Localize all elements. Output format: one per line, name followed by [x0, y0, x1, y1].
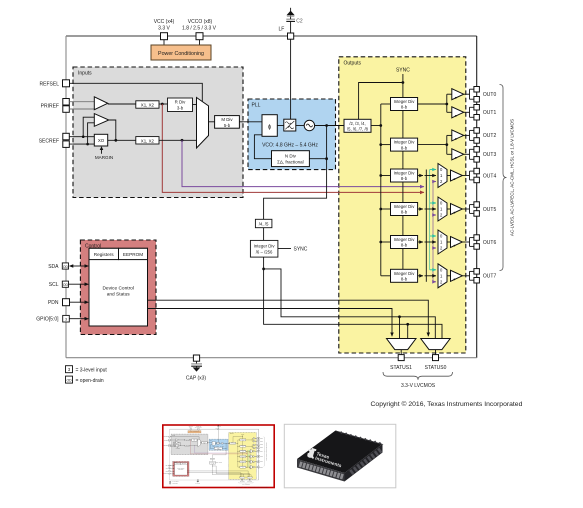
svg-text:STATUS0: STATUS0	[425, 365, 447, 371]
wire divider to OUT7 mux	[418, 275, 436, 277]
wire rail to divider 5	[381, 241, 391, 243]
svg-text:SYNC: SYNC	[294, 247, 308, 253]
buffer PRIREF input	[94, 97, 107, 110]
device control and status block	[89, 248, 148, 326]
svg-text:GPIO[5:0]: GPIO[5:0]	[36, 317, 59, 323]
wire divider to OUT2/OUT3 buffers	[418, 135, 452, 154]
chip boundary	[66, 36, 477, 358]
pin SECREF	[39, 133, 70, 147]
pin OUT7	[474, 269, 497, 283]
pin OUT1	[474, 105, 497, 121]
frequency doubler X1,X2 (primary)	[136, 101, 159, 108]
wire secondary reference to output muxes (purple)	[182, 140, 424, 186]
svg-text:PLL: PLL	[252, 103, 261, 109]
svg-text:Inputs: Inputs	[78, 71, 92, 77]
outputs block	[339, 57, 466, 353]
loop filter	[284, 119, 296, 131]
wire M divider to PFD	[239, 121, 262, 123]
pin REFSEL	[40, 80, 70, 88]
svg-text:Integer Div: Integer Div	[394, 140, 416, 145]
pin STATUS0	[425, 355, 447, 371]
mux input select	[197, 98, 209, 149]
wire OUT5 buffer to pins	[462, 205, 474, 214]
wire OUT3 buffer to pins	[464, 149, 474, 159]
buffer OUT0	[452, 89, 464, 100]
wire rail to divider 3	[381, 175, 391, 177]
svg-text:OUT0: OUT0	[483, 92, 497, 98]
divider distribution rail	[380, 104, 382, 276]
svg-text:/6 – /256: /6 – /256	[256, 250, 273, 255]
svg-text:N Div: N Div	[285, 153, 297, 158]
node status1 feed a	[398, 315, 401, 318]
wire post divider to rail	[371, 125, 381, 127]
wire OUT0 buffer to pins	[464, 89, 474, 99]
frequency doubler X1,X2 (secondary)	[136, 137, 159, 144]
wire buffer to doubler	[108, 103, 136, 105]
wire PRIREF pair to input buffer	[69, 102, 94, 109]
svg-text:OD: OD	[63, 283, 69, 287]
svg-text:PRIREF: PRIREF	[41, 103, 59, 109]
pin OUT3	[474, 147, 497, 163]
node rail junction	[379, 124, 382, 127]
wire /4,/5 to integer divider	[263, 228, 265, 241]
svg-text:OUT3: OUT3	[483, 152, 497, 158]
capacitor CAP	[191, 361, 202, 366]
wire rail to divider 6	[381, 275, 391, 277]
svg-text:STATUS1: STATUS1	[390, 365, 412, 371]
svg-text:/5, /6, /7, /8: /5, /6, /7, /8	[347, 126, 369, 131]
wire GPIO to control	[69, 317, 89, 321]
pin OUT4	[474, 168, 497, 182]
svg-text:Integer Div: Integer Div	[394, 237, 416, 242]
svg-text:SCL: SCL	[49, 282, 59, 288]
svg-text:VCCO (x8): VCCO (x8)	[188, 19, 213, 25]
svg-text:EEPROM: EEPROM	[123, 252, 143, 257]
node feedback junction	[325, 157, 328, 160]
phase detector	[262, 115, 277, 137]
wire doubler to R divider	[159, 103, 168, 105]
svg-text:/4, /5: /4, /5	[259, 222, 269, 227]
PLL block	[248, 99, 336, 170]
svg-text:5-b: 5-b	[224, 123, 231, 128]
thumbnail: mini block diagram	[163, 425, 274, 489]
chip pins far edge	[340, 431, 381, 445]
node rail junction 3	[379, 174, 382, 177]
pin OUT6	[474, 235, 497, 249]
divider N Div fractional	[272, 151, 310, 167]
svg-text:SDA: SDA	[48, 264, 59, 270]
svg-text:8-b: 8-b	[401, 243, 408, 248]
capacitor C2	[286, 15, 303, 33]
wire to SYNC label	[278, 248, 291, 250]
pin SDA	[48, 263, 68, 270]
wire STATUS0 mux to pin	[435, 350, 437, 355]
wire SYNC branch to post divider	[359, 83, 403, 120]
wire SCL to control	[69, 282, 90, 286]
wire SECREF pair to XO	[69, 137, 94, 144]
node status1 feed b	[406, 323, 409, 326]
buffer crystal input	[94, 114, 109, 127]
wire VCO to N divider	[309, 158, 326, 160]
mux OUT6 select	[438, 230, 447, 254]
buffer OUT6	[451, 237, 463, 248]
svg-text:PDN: PDN	[48, 300, 59, 306]
wire sync divider to status muxes	[264, 257, 442, 338]
wire mux to OUT7 buffer	[447, 275, 451, 277]
wire mux bus (purple)	[432, 182, 434, 282]
svg-text:REFSEL: REFSEL	[40, 81, 60, 87]
wire mux to OUT6 buffer	[447, 241, 451, 243]
wire teal into OUT7 mux	[430, 269, 436, 271]
wire divider to OUT4 mux	[418, 175, 436, 177]
wire crystal buffer to XO output net	[109, 120, 116, 140]
svg-text:OD: OD	[63, 265, 69, 269]
chip pins left edge	[299, 462, 344, 480]
EEPROM block	[119, 248, 148, 259]
buffer OUT5	[451, 204, 463, 215]
svg-text:Integer Div: Integer Div	[394, 99, 416, 104]
wire LF to loop filter	[290, 39, 292, 119]
mux STATUS1	[387, 339, 417, 350]
wire rail to divider 2	[381, 144, 391, 146]
svg-text:OUT5: OUT5	[483, 207, 497, 213]
wire purple into OUT7 mux	[433, 281, 436, 283]
node OUT2/OUT3 branch	[445, 143, 448, 146]
svg-text:OUT6: OUT6	[483, 240, 497, 246]
svg-text:/2, /3, /4,: /2, /3, /4,	[349, 121, 365, 126]
wire control to STATUS0 mux	[148, 300, 429, 336]
divider Integer Div /6-/256	[250, 240, 278, 257]
pin VCC	[154, 19, 175, 45]
svg-text:X1, X2: X1, X2	[141, 138, 155, 143]
svg-text:VCO: 4.8 GHz – 5.4 GHz: VCO: 4.8 GHz – 5.4 GHz	[262, 143, 318, 149]
wire input mux to M divider	[209, 121, 215, 123]
node OUT0/OUT1 branch	[445, 103, 448, 106]
wire purple into OUT5 mux	[433, 214, 436, 216]
inputs block	[73, 67, 243, 198]
svg-text:3-b: 3-b	[177, 105, 184, 110]
buffer OUT1	[452, 107, 464, 118]
mux OUT5 select	[438, 197, 447, 221]
pin OUT0	[474, 87, 497, 103]
pin OUT5	[474, 202, 497, 216]
svg-text:Registers: Registers	[94, 252, 114, 257]
svg-text:SYNC: SYNC	[396, 68, 410, 74]
pin GPIO[5:0]	[36, 315, 69, 322]
divider /4,/5	[255, 219, 272, 227]
divider Integer Div 2	[391, 138, 418, 151]
legend open-drain	[66, 376, 104, 384]
svg-text:C2: C2	[296, 18, 303, 24]
wire teal into OUT6 mux	[430, 235, 436, 237]
wire STATUS1 mux to pin	[400, 350, 402, 355]
svg-text:1.8 / 2.5 / 3.3 V: 1.8 / 2.5 / 3.3 V	[182, 26, 217, 32]
thumbnail: chip package photo	[284, 424, 396, 488]
node SYNC branch	[402, 81, 405, 84]
svg-text:AC-LVDS, AC-LVPECL, AC-CML, HC: AC-LVDS, AC-LVPECL, AC-CML, HCSL or 1.8-…	[510, 119, 515, 236]
svg-text:Integer Div: Integer Div	[394, 171, 416, 176]
svg-text:SECREF: SECREF	[39, 138, 59, 144]
buffer OUT3	[452, 149, 464, 160]
wire SECREF taps to crystal buffer	[83, 117, 94, 144]
oscillator VCO	[304, 120, 314, 130]
svg-text:XO: XO	[98, 138, 105, 143]
pin OUT2	[474, 128, 497, 144]
divider R Div 3-b	[168, 98, 193, 112]
svg-text:X1, X2: X1, X2	[141, 103, 155, 108]
wire purple into OUT6 mux	[433, 247, 436, 249]
wire SDA (bidirectional)	[69, 264, 89, 268]
ground (CAP)	[186, 366, 207, 381]
pin SCL	[49, 281, 69, 288]
wire rail to divider 1	[381, 103, 391, 105]
wire divider to OUT0/OUT1 buffers	[418, 94, 452, 112]
registers block	[89, 248, 119, 259]
legend 3-level input	[66, 366, 108, 374]
svg-text:8-b: 8-b	[401, 145, 408, 150]
wire N divider feedback to PFD	[254, 135, 271, 159]
node VCO output	[325, 124, 328, 127]
wire OUT4 buffer to pins	[462, 171, 474, 180]
wire secondary doubler to input mux	[159, 139, 197, 141]
svg-text:8-b: 8-b	[401, 277, 408, 282]
wire OUT2 buffer to pins	[464, 130, 474, 140]
buffer OUT2	[452, 130, 464, 141]
node rail junction 5	[379, 241, 382, 244]
svg-text:Outputs: Outputs	[344, 61, 362, 67]
wire purple into OUT4 mux	[433, 181, 436, 183]
node SECREF P tap	[82, 135, 85, 138]
svg-text:3.3-V LVCMOS: 3.3-V LVCMOS	[401, 383, 436, 389]
mux STATUS0	[421, 339, 451, 350]
wire divider to OUT6 mux	[418, 241, 436, 243]
node primary clock tap	[161, 103, 164, 106]
buffer OUT4	[451, 170, 463, 181]
divider Integer Div 5	[391, 236, 418, 249]
node XO output junction	[114, 139, 117, 142]
pin PRIREF	[41, 99, 70, 113]
wire SYNC chain through dividers	[402, 74, 404, 282]
wire VCO continued into outputs	[336, 125, 345, 127]
pin STATUS1	[390, 355, 412, 371]
buffer OUT7	[451, 270, 463, 281]
svg-text:= 3-level input: = 3-level input	[76, 368, 108, 374]
wire into STATUS1 mux a	[399, 317, 401, 339]
divider Integer Div 3	[391, 169, 418, 182]
chip TI logo	[306, 447, 344, 468]
wire OUT6 buffer to pins	[462, 238, 474, 247]
svg-text:OD: OD	[66, 378, 72, 382]
mux OUT4 select	[438, 164, 447, 188]
wire XO to doubler	[108, 139, 136, 141]
svg-text:ΣΔ, fractional: ΣΔ, fractional	[277, 160, 304, 165]
svg-text:Integer Div: Integer Div	[394, 204, 416, 209]
brace status pins	[383, 372, 453, 380]
divider M Div 5-b	[215, 116, 240, 129]
wire primary reference to output muxes (red)	[162, 104, 424, 192]
svg-text:M Div: M Div	[221, 117, 233, 122]
wire mux bus (black)	[425, 170, 427, 282]
svg-text:VCC (x4): VCC (x4)	[154, 19, 175, 25]
pin PDN	[48, 299, 70, 307]
chip pins right edge	[349, 448, 382, 475]
svg-text:Copyright © 2016, Texas Instru: Copyright © 2016, Texas Instruments Inco…	[371, 400, 523, 408]
svg-text:R Div: R Div	[175, 100, 187, 105]
MARGIN control	[95, 146, 113, 160]
power conditioning block	[151, 45, 211, 60]
wire control to STATUS1 mux	[148, 309, 393, 337]
svg-text:Integer Div: Integer Div	[394, 271, 416, 276]
svg-text:8-b: 8-b	[401, 105, 408, 110]
svg-text:3.3 V: 3.3 V	[158, 26, 170, 32]
divider Integer Div 1	[391, 98, 418, 111]
svg-text:MARGIN: MARGIN	[95, 155, 113, 160]
svg-text:LF: LF	[278, 26, 284, 32]
wire PFD to loop filter	[277, 125, 284, 127]
divider Integer Div 6	[391, 269, 418, 282]
pin CAP	[193, 355, 199, 361]
wire mux to OUT5 buffer	[447, 208, 451, 210]
wire OUT1 buffer to pins	[464, 107, 474, 117]
wire VCO down to sync divider chain	[264, 126, 327, 220]
wire mux bus (teal)	[429, 170, 431, 270]
pin LF	[278, 26, 293, 39]
svg-text:= open-drain: = open-drain	[76, 378, 104, 384]
wire teal into OUT5 mux	[430, 202, 436, 204]
svg-text:OUT4: OUT4	[483, 173, 497, 179]
svg-text:OUT2: OUT2	[483, 133, 497, 139]
node rail junction 4	[379, 208, 382, 211]
node SECREF N tap	[86, 143, 89, 146]
mux OUT7 select	[438, 264, 447, 288]
svg-text:CAP (x3): CAP (x3)	[186, 376, 207, 382]
post divider /2../8	[344, 119, 371, 132]
wire divider to OUT5 mux	[418, 208, 436, 210]
wire PDN to control	[70, 300, 90, 304]
node sync branch	[262, 268, 265, 271]
wire loop filter to VCO	[296, 125, 304, 127]
wire VCO to post divider	[315, 125, 344, 127]
svg-text:3: 3	[65, 318, 67, 322]
brace output formats	[500, 85, 507, 271]
wire OUT7 buffer to pins	[462, 271, 474, 280]
svg-text:8-b: 8-b	[401, 176, 408, 181]
divider Integer Div 4	[391, 203, 418, 216]
wire sync branch to status muxes	[264, 269, 436, 339]
pin VCCO	[182, 19, 217, 45]
ground (top, C2)	[287, 8, 295, 16]
wire rail to divider 4	[381, 208, 391, 210]
svg-text:and Status: and Status	[107, 292, 131, 298]
node rail junction 2	[379, 143, 382, 146]
control block	[80, 240, 156, 335]
wire REFSEL to input mux select	[70, 83, 203, 101]
wire mux to OUT4 buffer	[447, 175, 451, 177]
svg-text:8-b: 8-b	[401, 210, 408, 215]
wire into STATUS1 mux b	[407, 324, 409, 338]
svg-text:Integer Div: Integer Div	[254, 243, 276, 248]
svg-text:OUT7: OUT7	[483, 274, 497, 280]
wire R divider to input mux	[193, 104, 197, 106]
oscillator XO	[94, 134, 107, 146]
svg-text:Power Conditioning: Power Conditioning	[158, 51, 204, 57]
svg-text:OUT1: OUT1	[483, 110, 497, 116]
node secondary clock tap	[181, 139, 184, 142]
svg-text:Device Control: Device Control	[102, 286, 133, 292]
wire teal into OUT4 mux	[430, 169, 436, 171]
